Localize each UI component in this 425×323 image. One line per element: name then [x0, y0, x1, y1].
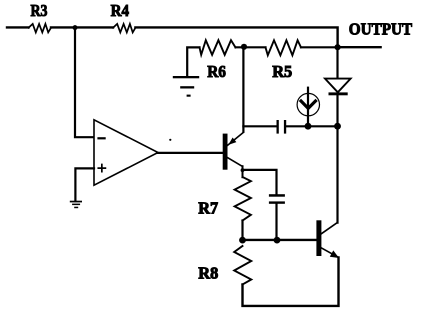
resistor R5	[266, 40, 302, 55]
svg-text:R3: R3	[31, 1, 48, 20]
transistor Q2 emitter arrow	[330, 250, 339, 258]
wire C2 to node F	[275, 204, 277, 240]
wire diode to node D and down to Q2 collector	[336, 95, 338, 223]
node E small dot	[241, 168, 245, 172]
node OUT junction dot	[335, 44, 341, 50]
wire non-inverting input	[75, 168, 94, 201]
resistor R4	[113, 24, 135, 33]
wire R7 to node G	[241, 221, 243, 241]
transistor Q1 emitter lead	[228, 132, 244, 145]
current source I1 circle	[297, 93, 319, 115]
wire R8 bottom rail to Q2 emitter	[243, 257, 339, 306]
wire emitter node to capacitor C1	[243, 125, 276, 127]
op-amp minus sign	[99, 137, 105, 139]
wire R3 to R4	[51, 26, 113, 28]
node A junction dot R3/R4	[73, 25, 78, 30]
ground op-amp	[70, 201, 82, 209]
svg-text:R4: R4	[111, 1, 129, 20]
wire input left	[7, 26, 29, 28]
wire R5 to output node	[301, 46, 338, 48]
svg-text:OUTPUT: OUTPUT	[349, 20, 413, 39]
op-amp U1	[94, 120, 158, 185]
capacitor C2	[269, 194, 285, 204]
wire inverting input from node A	[75, 28, 94, 138]
diode D1	[325, 79, 351, 93]
stray dot near op-amp	[169, 139, 171, 141]
transistor Q1 collector lead	[228, 158, 243, 167]
node F junction dot	[274, 237, 281, 244]
op-amp plus sign	[98, 165, 105, 172]
wire C1 to current source node	[286, 125, 337, 127]
transistor Q1 emitter arrow	[228, 138, 236, 145]
node G junction dot	[239, 237, 246, 244]
resistor R3	[29, 24, 52, 33]
resistor R8	[234, 246, 251, 285]
wire node B down to Q1 emitter	[242, 47, 244, 132]
wire R6 left to ground	[187, 47, 199, 76]
wire current source stem	[307, 88, 309, 127]
svg-text:R7: R7	[198, 199, 218, 218]
transistor Q1 base wire from op-amp	[157, 152, 223, 154]
svg-text:R8: R8	[198, 264, 218, 283]
wire R6 to R5	[236, 46, 266, 48]
node C junction dot	[305, 123, 312, 130]
diode D1 anode wire	[336, 47, 338, 78]
svg-text:R5: R5	[272, 62, 292, 81]
svg-text:R6: R6	[207, 62, 226, 81]
wire output stub	[338, 46, 381, 48]
wire Q1 collector to node E	[242, 166, 244, 177]
diode D1 cathode bar	[329, 92, 348, 95]
transistor Q1 bar	[223, 134, 228, 170]
wire base row to Q2	[243, 239, 317, 241]
transistor Q2 bar	[316, 220, 321, 256]
transistor Q2 collector lead	[321, 223, 337, 234]
ground R6	[173, 76, 199, 97]
resistor R6	[200, 40, 236, 55]
node D junction dot	[334, 123, 341, 130]
resistor R7	[235, 177, 251, 221]
node B junction dot R6/R5	[241, 44, 247, 50]
current source arrow	[301, 101, 316, 108]
capacitor C1	[277, 120, 287, 134]
wire node E to capacitor C2	[243, 170, 277, 194]
transistor Q2 emitter lead	[321, 248, 338, 257]
wire top rail R4 to right corner	[135, 27, 337, 47]
